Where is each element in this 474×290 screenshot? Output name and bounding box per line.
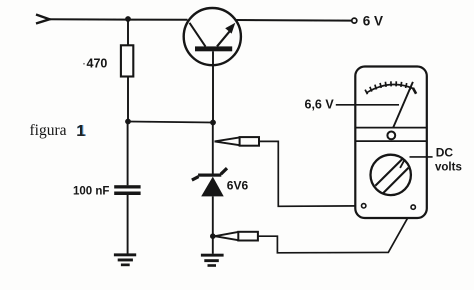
svg-text:DC: DC bbox=[436, 146, 454, 160]
wire: top rail right (transistor to 6V terminal) bbox=[237, 19, 352, 22]
input terminal chevron bbox=[36, 15, 50, 24]
svg-text:figura: figura bbox=[30, 122, 67, 139]
pointer line from 6,6V label bbox=[336, 104, 399, 106]
wire: node B to node C bbox=[128, 122, 213, 123]
meter rotary dial bbox=[371, 155, 411, 195]
transistor Q1 bbox=[184, 8, 241, 65]
svg-text:volts: volts bbox=[435, 161, 462, 173]
multimeter body bbox=[355, 67, 427, 219]
meter needle bbox=[393, 82, 413, 128]
svg-text:6V6: 6V6 bbox=[227, 178, 249, 192]
meter scale arc with ticks bbox=[365, 81, 416, 94]
svg-text:100 nF: 100 nF bbox=[73, 186, 109, 198]
meter left terminal bbox=[362, 204, 366, 208]
zener diode D1 6V6 bbox=[192, 123, 227, 254]
meter pivot circle bbox=[387, 132, 395, 140]
node B (resistor / capacitor junction) bbox=[125, 119, 131, 125]
probe P1 (upper test lead) bbox=[215, 137, 260, 146]
probe P2 (lower test lead) bbox=[215, 232, 258, 241]
ground (zener) bbox=[201, 254, 224, 267]
node D (lower probe tap) bbox=[210, 233, 216, 239]
capacitor C1 100 nF bbox=[114, 122, 140, 254]
svg-text:470: 470 bbox=[87, 57, 108, 71]
node A (rail / resistor junction) bbox=[125, 16, 131, 22]
svg-text:6 V: 6 V bbox=[363, 14, 383, 29]
wire: transistor base down to node C bbox=[212, 51, 214, 122]
terminal: 6V open circle bbox=[352, 18, 357, 23]
svg-text:1: 1 bbox=[76, 123, 85, 140]
svg-text:6,6 V: 6,6 V bbox=[305, 97, 335, 111]
wire: probe P2 to meter right terminal bbox=[258, 209, 413, 253]
wire: probe P1 to meter left terminal bbox=[259, 141, 361, 206]
pointer line to DC volts label bbox=[410, 156, 433, 158]
resistor 470 bbox=[121, 19, 133, 122]
meter band lines bbox=[356, 127, 427, 129]
ground (capacitor) bbox=[114, 253, 136, 266]
wire: top rail left (input to transistor) bbox=[48, 18, 188, 21]
node C (base / zener junction) bbox=[210, 120, 216, 126]
meter right terminal bbox=[411, 205, 415, 209]
